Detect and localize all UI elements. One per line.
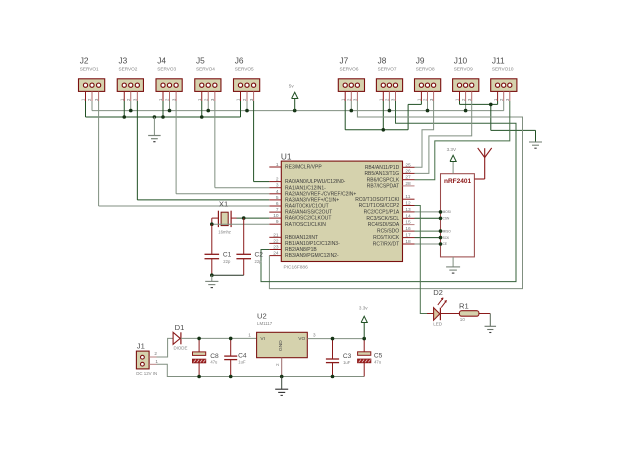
wire: U1 pin 13 to nRF2401 MOSI bbox=[415, 210, 451, 214]
junction dot C1 bottom bbox=[210, 273, 214, 277]
svg-text:PIC16F886: PIC16F886 bbox=[284, 265, 309, 271]
svg-text:RC7/RX/DT: RC7/RX/DT bbox=[373, 242, 399, 248]
svg-text:1: 1 bbox=[155, 359, 158, 364]
capacitor C2 22p bbox=[236, 218, 263, 275]
U1 left pin names bbox=[285, 165, 356, 260]
svg-text:3.3V: 3.3V bbox=[447, 147, 457, 152]
svg-text:21: 21 bbox=[273, 232, 279, 238]
svg-text:RC3/SCK/SCL: RC3/SCK/SCL bbox=[366, 216, 399, 222]
wire: J2 signal to U1 pin 6 bbox=[99, 101, 270, 206]
junction dot X1/C1 node bbox=[210, 222, 214, 226]
junction dot C4 top bbox=[229, 337, 233, 341]
wire: right ground bus J7/J8/J9 pin1 bbox=[345, 101, 421, 130]
capacitor C5 47u (electrolytic) bbox=[358, 339, 383, 377]
svg-text:RB3/AN9/PGM/C12IN2-: RB3/AN9/PGM/C12IN2- bbox=[285, 253, 339, 259]
svg-text:J9: J9 bbox=[416, 56, 425, 66]
svg-text:10: 10 bbox=[273, 213, 279, 219]
svg-text:5: 5 bbox=[276, 195, 279, 201]
svg-text:J1: J1 bbox=[137, 342, 145, 351]
wire: J6 signal to U1 pin 2 bbox=[254, 101, 270, 182]
svg-text:nRF2401: nRF2401 bbox=[444, 178, 471, 185]
svg-text:15: 15 bbox=[405, 220, 411, 226]
svg-text:9: 9 bbox=[276, 219, 279, 225]
svg-text:SERVO2: SERVO2 bbox=[118, 66, 137, 71]
wire: J1 pin2 to D1 anode bbox=[157, 338, 174, 357]
junction dot at ground branch bbox=[489, 103, 493, 107]
svg-text:11: 11 bbox=[405, 194, 410, 200]
op-amp U1 microcontroller PIC16F886 body bbox=[281, 151, 403, 270]
capacitor C8 47u (electrolytic) bbox=[193, 338, 219, 376]
connector J1 DC 12V IN bbox=[136, 342, 158, 377]
wire: J7 signal to U1 pin 24 bbox=[269, 101, 522, 289]
svg-text:J3: J3 bbox=[118, 56, 127, 66]
svg-text:3: 3 bbox=[276, 183, 279, 189]
svg-text:SERVO1: SERVO1 bbox=[80, 66, 99, 71]
capacitor C3 1uF bbox=[326, 339, 352, 377]
svg-text:RB4/AN11/P1D: RB4/AN11/P1D bbox=[365, 165, 400, 171]
svg-text:RB7/ICSPDAT: RB7/ICSPDAT bbox=[367, 184, 399, 190]
svg-text:10: 10 bbox=[460, 317, 466, 322]
U1 right pin names bbox=[355, 165, 400, 248]
wire: U1 pin 12 to LED D2 bbox=[415, 206, 428, 314]
svg-text:5v: 5v bbox=[289, 84, 295, 89]
wire: left ground bus (J2-J6 pin1) bbox=[86, 101, 241, 117]
connector J4 (SERVO3) 3-pin servo header bbox=[156, 56, 182, 101]
svg-text:J7: J7 bbox=[340, 56, 349, 66]
ground symbol below nRF2401 bbox=[446, 257, 460, 273]
junction dot C8 bottom bbox=[197, 375, 201, 379]
connector J3 (SERVO2) 3-pin servo header bbox=[117, 56, 143, 101]
junction dot C5/3.3v node bbox=[362, 337, 366, 341]
wire: X1 left to U1 pin 9 (OSC1) bbox=[212, 218, 269, 224]
svg-text:3: 3 bbox=[313, 333, 316, 338]
connector J9 (SERVO8) 3-pin servo header bbox=[415, 56, 441, 101]
svg-text:2: 2 bbox=[276, 177, 279, 183]
svg-text:LM1117: LM1117 bbox=[257, 321, 273, 326]
connector J7 (SERVO6) 3-pin servo header bbox=[338, 56, 364, 101]
svg-text:7: 7 bbox=[276, 207, 279, 213]
svg-text:R1: R1 bbox=[459, 301, 469, 310]
svg-text:RB2/AN8/P1B: RB2/AN8/P1B bbox=[285, 247, 317, 253]
svg-text:C2: C2 bbox=[255, 252, 264, 259]
module U3 nRF2401 radio bbox=[441, 174, 475, 257]
svg-text:1: 1 bbox=[276, 162, 279, 168]
svg-text:SCK: SCK bbox=[443, 236, 450, 240]
svg-text:4: 4 bbox=[276, 189, 279, 195]
connector J6 (SERVO5) 3-pin servo header bbox=[234, 56, 260, 101]
svg-text:VI: VI bbox=[260, 336, 265, 342]
wire: J5 signal to U1 pin 3 bbox=[215, 101, 269, 188]
svg-text:23: 23 bbox=[273, 245, 279, 251]
wire: X1 right to U1 pin 10 (OSC2) bbox=[231, 217, 269, 219]
svg-text:VO: VO bbox=[298, 336, 305, 342]
svg-text:47u: 47u bbox=[374, 360, 382, 365]
wire: U1 pin 14 to nRF2401 CSN bbox=[415, 217, 451, 221]
junction dot C4 bottom bbox=[229, 375, 233, 379]
wire: U1 pin 18 to nRF2401 CE bbox=[415, 242, 448, 246]
svg-text:17: 17 bbox=[405, 233, 411, 239]
wire: U1 pin 16 to nRF2401 MISO bbox=[415, 229, 452, 233]
svg-text:1: 1 bbox=[248, 333, 251, 338]
svg-text:13: 13 bbox=[405, 207, 411, 213]
svg-text:16: 16 bbox=[405, 226, 411, 232]
junction dots on 5V bus bbox=[129, 109, 467, 113]
junction dot C8 top bbox=[197, 337, 201, 341]
svg-text:28: 28 bbox=[405, 181, 411, 187]
svg-text:J6: J6 bbox=[235, 56, 244, 66]
svg-text:RB0/AN12/INT: RB0/AN12/INT bbox=[285, 235, 318, 241]
svg-text:RA2/AN2/VREF-/CVREF/C2IN+: RA2/AN2/VREF-/CVREF/C2IN+ bbox=[285, 191, 356, 197]
wire: C1/C2 bottoms joined bbox=[212, 274, 244, 276]
connector J11 (SERVO10) 3-pin servo header bbox=[491, 56, 517, 101]
svg-text:U2: U2 bbox=[257, 312, 267, 321]
svg-text:RC4/SDI/SDA: RC4/SDI/SDA bbox=[368, 222, 400, 228]
junction dot C3 bottom bbox=[331, 375, 335, 379]
svg-text:D1: D1 bbox=[175, 323, 185, 332]
svg-text:22p: 22p bbox=[223, 259, 231, 264]
svg-text:14: 14 bbox=[405, 213, 411, 219]
power symbol 5v bbox=[289, 84, 298, 111]
svg-text:RB6/ICSPCLK: RB6/ICSPCLK bbox=[367, 177, 400, 183]
svg-text:C5: C5 bbox=[374, 352, 383, 359]
svg-text:27: 27 bbox=[405, 175, 411, 181]
diode D1 bbox=[173, 323, 187, 351]
svg-text:SERVO4: SERVO4 bbox=[196, 66, 215, 71]
regulator U2 LM1117 bbox=[248, 312, 316, 377]
svg-text:RE3/MCLR/VPP: RE3/MCLR/VPP bbox=[285, 165, 322, 171]
svg-text:X1: X1 bbox=[219, 199, 228, 208]
svg-text:SERVO8: SERVO8 bbox=[416, 66, 435, 71]
wire: J8 signal to U1 pin 23 bbox=[261, 101, 516, 282]
svg-text:RA3/AN3/VREF+/C1IN+: RA3/AN3/VREF+/C1IN+ bbox=[285, 198, 339, 204]
svg-text:U1: U1 bbox=[281, 151, 292, 161]
svg-text:22: 22 bbox=[273, 238, 279, 244]
wire: J10 signal to U1 pin 26 bbox=[415, 101, 472, 173]
svg-text:LED: LED bbox=[433, 322, 443, 327]
junction dot X1/C2 node bbox=[242, 216, 246, 220]
svg-text:J10: J10 bbox=[454, 56, 468, 66]
svg-text:RC1/T1OSI/CCP2: RC1/T1OSI/CCP2 bbox=[359, 203, 400, 209]
LED D2 bbox=[427, 288, 447, 326]
svg-text:26: 26 bbox=[405, 168, 411, 174]
ground symbol below C1 bbox=[205, 275, 218, 287]
ground symbol below U2 bbox=[275, 377, 288, 396]
svg-text:J5: J5 bbox=[196, 56, 205, 66]
svg-text:CSN: CSN bbox=[443, 217, 450, 221]
svg-text:RC5/SDO: RC5/SDO bbox=[377, 229, 399, 235]
connector J10 (SERVO9) 3-pin servo header bbox=[453, 56, 479, 101]
svg-text:2: 2 bbox=[275, 363, 280, 366]
capacitor C1 22p bbox=[205, 224, 232, 275]
svg-text:RA6/OSC2/CLKOUT: RA6/OSC2/CLKOUT bbox=[285, 216, 331, 222]
svg-text:DC 12V IN: DC 12V IN bbox=[136, 371, 157, 376]
junction dot U2 GND bbox=[280, 375, 284, 379]
svg-text:6: 6 bbox=[276, 201, 279, 207]
svg-text:J2: J2 bbox=[80, 56, 89, 66]
svg-text:SERVO9: SERVO9 bbox=[454, 66, 473, 71]
svg-text:24: 24 bbox=[273, 251, 279, 257]
wire: J3 signal to U1 pin 5 bbox=[137, 101, 269, 200]
svg-text:DIODE: DIODE bbox=[174, 346, 188, 351]
wire: U2 VO to 3.3v node bbox=[307, 338, 364, 340]
svg-text:SERVO5: SERVO5 bbox=[235, 66, 254, 71]
antenna AE1 bbox=[474, 148, 491, 179]
svg-text:RA0/AN0/ULPWU/C12IN0-: RA0/AN0/ULPWU/C12IN0- bbox=[285, 179, 346, 185]
svg-text:RB1/AN10/P1C/C12IN3-: RB1/AN10/P1C/C12IN3- bbox=[285, 241, 340, 247]
svg-text:22p: 22p bbox=[255, 259, 263, 264]
svg-text:RC0/T1OSO/T1CKI: RC0/T1OSO/T1CKI bbox=[355, 197, 399, 203]
svg-text:C1: C1 bbox=[223, 252, 232, 259]
svg-text:SERVO7: SERVO7 bbox=[378, 66, 397, 71]
svg-text:SERVO10: SERVO10 bbox=[492, 66, 514, 71]
svg-text:GND: GND bbox=[278, 340, 284, 351]
svg-text:12: 12 bbox=[405, 201, 411, 207]
net 5V bus wire (connects servo middle pins) bbox=[92, 101, 504, 111]
svg-text:18: 18 bbox=[405, 239, 411, 245]
svg-text:MOSI: MOSI bbox=[443, 210, 451, 214]
ground symbol below R1 bbox=[485, 326, 497, 332]
svg-text:SERVO3: SERVO3 bbox=[157, 66, 176, 71]
wire: right ground bus J10/J11 pin1 to top-right ground bbox=[460, 101, 536, 142]
U1 left pin numbers bbox=[273, 162, 279, 257]
svg-text:RA7/OSC1/CLKIN: RA7/OSC1/CLKIN bbox=[285, 222, 326, 228]
svg-text:MISO: MISO bbox=[443, 229, 452, 233]
U1 right pin stubs bbox=[403, 167, 415, 244]
svg-text:2: 2 bbox=[154, 351, 157, 356]
svg-text:SERVO6: SERVO6 bbox=[340, 66, 359, 71]
U1 left pin stubs bbox=[269, 167, 281, 256]
svg-text:RB5/AN13/T1G: RB5/AN13/T1G bbox=[364, 171, 399, 177]
svg-text:25: 25 bbox=[405, 162, 411, 168]
junction dot C3 top bbox=[331, 337, 335, 341]
connector J8 (SERVO7) 3-pin servo header bbox=[376, 56, 402, 101]
svg-text:16mhz: 16mhz bbox=[218, 230, 231, 235]
crystal X1 16MHz bbox=[218, 199, 231, 234]
svg-text:RC6/TX/CK: RC6/TX/CK bbox=[373, 235, 400, 241]
svg-text:J8: J8 bbox=[378, 56, 387, 66]
svg-text:RA4/T0CKI/C1OUT: RA4/T0CKI/C1OUT bbox=[285, 204, 329, 210]
capacitor C4 1uF bbox=[224, 338, 247, 376]
svg-text:47u: 47u bbox=[210, 360, 218, 365]
resistor R1 value 10 bbox=[440, 301, 490, 326]
junction dots on left ground bus bbox=[122, 115, 203, 119]
wire: J9 signal to U1 pin 25 bbox=[415, 101, 434, 167]
wire: 12V rail D1 to U2 VI bbox=[181, 337, 257, 339]
svg-text:J4: J4 bbox=[157, 56, 166, 66]
wire: J11 signal to U1 pin 27 bbox=[415, 101, 510, 180]
svg-text:RA1/AN1/C12IN1-: RA1/AN1/C12IN1- bbox=[285, 185, 326, 191]
U1 right pin numbers bbox=[405, 162, 411, 245]
svg-text:RC2/CCP1/P1A: RC2/CCP1/P1A bbox=[364, 210, 400, 216]
svg-text:D2: D2 bbox=[433, 288, 443, 297]
ground symbol top right bbox=[529, 142, 542, 148]
ground symbol below left ground bus bbox=[148, 117, 161, 142]
connector J2 (SERVO1) 3-pin servo header bbox=[79, 56, 105, 101]
svg-text:3.3v: 3.3v bbox=[359, 306, 368, 311]
connector J5 (SERVO4) 3-pin servo header bbox=[195, 56, 221, 101]
svg-text:1uF: 1uF bbox=[238, 360, 246, 365]
svg-text:J11: J11 bbox=[492, 56, 505, 66]
wire: J1 pin1 to ground rail bbox=[157, 364, 365, 376]
power symbol 3.3v at C5 bbox=[359, 306, 368, 339]
wire: U1 pin 17 to nRF2401 SCK bbox=[415, 236, 451, 240]
power symbol 3.3V at nRF2401 bbox=[447, 147, 457, 174]
wire: J4 signal to U1 pin 4 bbox=[176, 101, 269, 194]
junction dot J8 pin1 bbox=[382, 128, 386, 132]
svg-text:1uF: 1uF bbox=[343, 360, 351, 365]
svg-text:CE: CE bbox=[443, 242, 447, 246]
